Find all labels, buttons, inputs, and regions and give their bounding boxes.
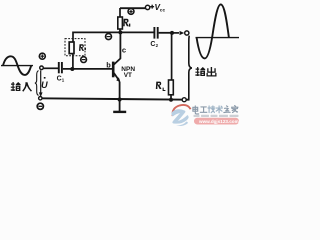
junction RL at rail (169, 98, 173, 102)
right brace wire with tip (189, 36, 192, 100)
transistor VT (113, 58, 120, 82)
char zhi (224, 106, 230, 113)
char ru (22, 82, 32, 92)
label RL (156, 82, 166, 91)
svg-text:U: U (41, 80, 48, 90)
svg-text:2: 2 (156, 43, 159, 48)
input bottom node (39, 97, 42, 100)
wire RL drop (171, 33, 173, 80)
label output (shu chu) (195, 67, 216, 77)
svg-text:1: 1 (62, 78, 65, 83)
input terminal node (40, 66, 44, 70)
svg-text:www.dgjs123.com: www.dgjs123.com (198, 119, 239, 124)
capacitor C2 (154, 27, 157, 39)
node junction base / bias resistor (70, 67, 74, 71)
wire emitter down (119, 82, 121, 100)
wire C2 to output node (159, 32, 172, 34)
wire mid rail to bias resistor (down) (73, 32, 121, 69)
resistor R bias in dashed box (65, 39, 85, 56)
watermark logo (171, 105, 190, 126)
char chu (207, 67, 217, 77)
polarity plus at input top (39, 53, 45, 59)
input brace (35, 71, 39, 96)
svg-text:VT: VT (124, 72, 132, 79)
input voltage arrow Ui (39, 70, 43, 97)
output terminal top (185, 31, 189, 35)
label +Vcc (150, 3, 165, 13)
junction collector node (118, 30, 122, 34)
label NPN VT (121, 66, 135, 79)
char shu (11, 82, 21, 91)
resistor RL (169, 80, 174, 100)
polarity minus at input bottom (37, 103, 43, 109)
output sine wave (196, 4, 240, 58)
junction output node (170, 31, 174, 35)
label input (shu ru) (11, 82, 32, 92)
char jia (232, 106, 238, 113)
char dian (193, 106, 199, 114)
junction emitter at rail (118, 97, 122, 101)
char shu (195, 67, 205, 76)
wire C1 to base (63, 68, 113, 70)
watermark tiny caption (194, 115, 239, 117)
svg-text:cc: cc (160, 8, 166, 13)
wire collector (119, 32, 121, 59)
label C2 (150, 41, 158, 48)
polarity minus below bias resistor (81, 57, 87, 63)
resistor R1 (118, 8, 123, 32)
svg-text:b: b (106, 60, 111, 69)
capacitor C1 (59, 62, 62, 73)
label Ui phasor (41, 77, 48, 90)
polarity minus at collector node (106, 34, 112, 40)
polarity plus at Vcc (128, 8, 134, 14)
terminal +Vcc (145, 5, 149, 9)
wire input node to C1 (43, 67, 58, 69)
wire with arrowhead to output terminal (172, 31, 184, 35)
output terminal bottom (182, 98, 186, 102)
wire top rail (120, 7, 145, 9)
input sine wave (1, 56, 33, 75)
label R1 (123, 19, 130, 27)
svg-text:c: c (122, 46, 126, 55)
label R (bias) (79, 44, 86, 51)
watermark text dian gong ji shu zhi jia (193, 106, 238, 114)
char gong (200, 107, 207, 112)
bottom rail (40, 98, 189, 99)
char shu (216, 106, 222, 113)
label C1 (57, 76, 65, 83)
char ji (208, 106, 215, 113)
watermark url bar (194, 118, 239, 125)
wire collector node to C2 (120, 31, 153, 33)
ground (113, 100, 126, 112)
